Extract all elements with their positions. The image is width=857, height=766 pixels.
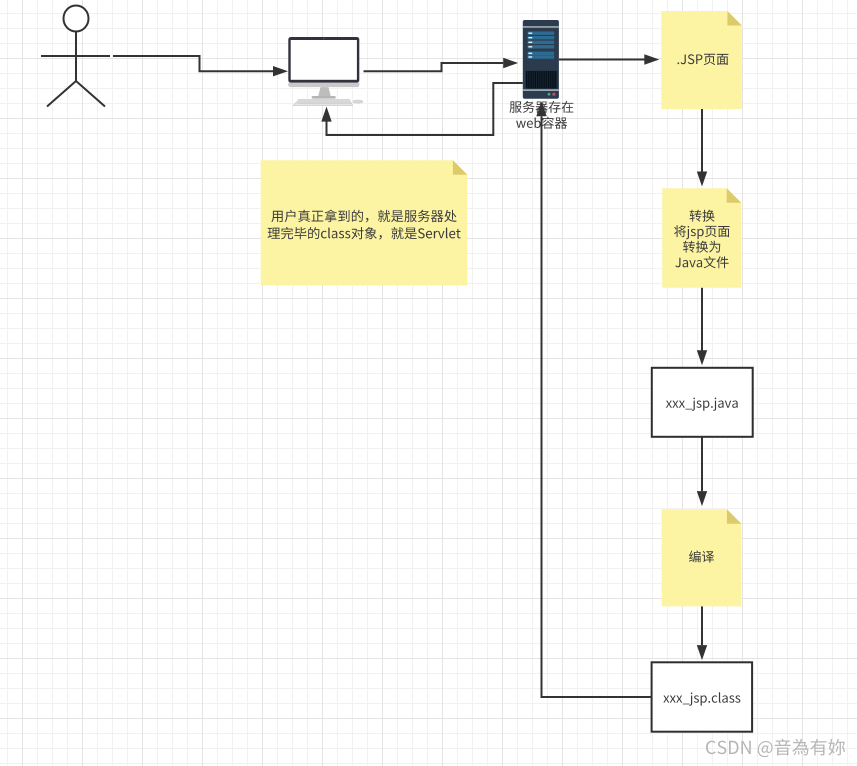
wire actor to monitor — [113, 56, 274, 71]
actor: user stick figure — [41, 6, 110, 107]
monitor: user computer icon — [288, 37, 363, 105]
note: convert jsp page to java file — [662, 188, 741, 288]
watermark CSDN — [706, 739, 845, 757]
label: server contains web container — [510, 101, 574, 113]
note: compile — [662, 509, 742, 606]
wire JSP note to convert note — [701, 109, 703, 172]
server: web container tower icon — [523, 20, 559, 99]
wire compile note to class box — [701, 606, 703, 645]
wire server to monitor (response) — [327, 83, 523, 135]
wire convert note to java box — [701, 288, 703, 351]
wire monitor to server — [364, 63, 504, 71]
box: xxx_jsp.java — [652, 368, 753, 437]
box: xxx_jsp.class — [652, 662, 753, 731]
wire java box to compile note — [701, 437, 703, 491]
wire server to JSP note — [559, 59, 645, 61]
note: JSP page — [661, 11, 742, 109]
wire class box back to server — [542, 116, 652, 697]
note: user receives processed class object (Servlet) — [261, 160, 468, 285]
